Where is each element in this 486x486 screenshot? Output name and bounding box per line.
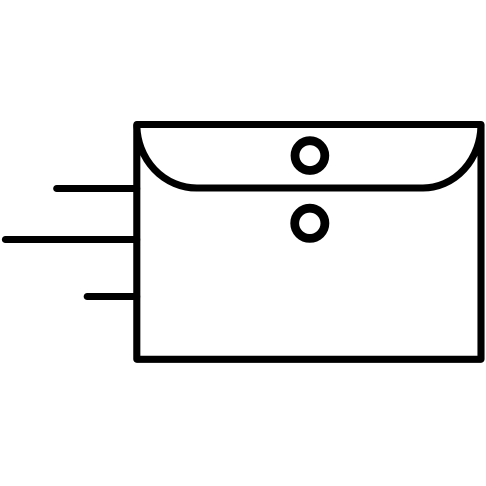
speed line 2 <box>5 236 136 243</box>
clasp circle top <box>295 141 325 171</box>
envelope flap <box>137 125 481 189</box>
envelope body <box>137 125 481 360</box>
clasp circle bottom <box>295 208 325 238</box>
speed line 1 <box>57 185 137 192</box>
speed line 3 <box>87 293 137 300</box>
